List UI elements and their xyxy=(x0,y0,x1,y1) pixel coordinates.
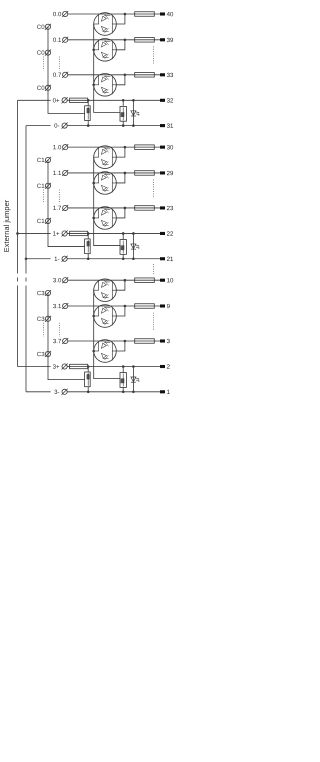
junction 1+ F1 xyxy=(87,232,90,235)
svg-text:0.0: 0.0 xyxy=(53,11,62,18)
junction 3+ LED xyxy=(132,365,135,368)
terminal C1 xyxy=(45,183,51,189)
wire 1+ to fuse xyxy=(67,232,69,234)
wire jumper bus to 1+ xyxy=(18,232,51,234)
pin 23 xyxy=(160,206,165,209)
svg-text:23: 23 xyxy=(167,205,174,212)
terminal 0- xyxy=(62,123,68,129)
junction row 1.0 xyxy=(124,146,127,149)
pin 29 xyxy=(160,171,165,174)
svg-text:2: 2 xyxy=(167,364,171,371)
svg-text:1.7: 1.7 xyxy=(53,205,62,212)
svg-text:External jumper: External jumper xyxy=(2,199,11,252)
pin 40 xyxy=(160,12,165,15)
wire row 1- xyxy=(67,258,160,260)
output driver 1.0 xyxy=(94,146,117,169)
ellipsis dots left a group 1 xyxy=(43,190,45,204)
terminal C0 xyxy=(45,50,51,56)
fuse F2 group 0 xyxy=(120,100,126,125)
external jumper bus minus break dash xyxy=(25,278,27,282)
junction row 0.7 xyxy=(124,74,127,77)
wire jumper bus to 0+ xyxy=(18,99,51,101)
wire common bus C1 xyxy=(48,160,85,247)
svg-text:1: 1 xyxy=(167,389,171,396)
terminal 3.7 xyxy=(62,338,68,344)
junction row 0.1 xyxy=(124,39,127,42)
wire row 0.0 xyxy=(68,13,160,15)
terminal C0 xyxy=(45,85,51,91)
svg-text:3.7: 3.7 xyxy=(53,338,62,345)
output driver 3.7 xyxy=(94,340,117,363)
svg-text:3.0: 3.0 xyxy=(53,277,62,284)
junction row 0.0 xyxy=(124,13,127,16)
ellipsis dots left a group 0 xyxy=(43,57,45,71)
wire jumper bus to 3+ xyxy=(18,366,51,368)
junction driver 0.1 common xyxy=(92,49,95,52)
ellipsis dots right group 1 xyxy=(153,180,155,197)
junction 0- F2 xyxy=(122,124,125,127)
wire driver output jog 3.1 xyxy=(116,306,125,316)
external jumper bus plus lower xyxy=(17,286,19,367)
svg-text:1+: 1+ xyxy=(53,231,60,238)
svg-text:3-: 3- xyxy=(54,389,59,396)
svg-text:C0: C0 xyxy=(37,24,45,31)
wire common bus C3 xyxy=(48,293,85,380)
svg-text:3+: 3+ xyxy=(53,364,60,371)
ellipsis dots right group 0 xyxy=(153,47,155,64)
terminal C3 xyxy=(45,351,51,357)
terminal 1+ xyxy=(62,230,68,236)
svg-text:1-: 1- xyxy=(54,256,59,263)
LED indicator group 0 xyxy=(131,100,140,125)
svg-text:0.7: 0.7 xyxy=(53,72,62,79)
pin 33 xyxy=(160,73,165,76)
junction 1- F1 xyxy=(87,257,90,260)
wire driver common bus group 0 xyxy=(94,24,120,112)
wire driver output jog 0.1 xyxy=(116,40,125,50)
svg-text:C3: C3 xyxy=(37,316,45,323)
fuse F2 group 3 xyxy=(120,367,126,392)
pin 22 xyxy=(160,232,165,235)
wire row 1.7 xyxy=(68,207,160,209)
wire driver output jog 3.7 xyxy=(116,341,125,351)
terminal 1.0 xyxy=(62,144,68,150)
pin 10 xyxy=(160,279,165,282)
terminal 0.7 xyxy=(62,72,68,78)
junction 3- LED xyxy=(132,391,135,394)
terminal 3.1 xyxy=(62,303,68,309)
fuse row 3.0 xyxy=(135,278,155,283)
junction 3+ F2 xyxy=(122,365,125,368)
wire driver output jog 1.1 xyxy=(116,173,125,183)
pin 1 xyxy=(160,390,165,393)
svg-text:9: 9 xyxy=(167,303,171,310)
fuse row 1+ xyxy=(70,231,88,235)
svg-text:29: 29 xyxy=(167,170,174,177)
wire row 1.1 xyxy=(68,172,160,174)
fuse row 3.7 xyxy=(135,339,155,344)
svg-text:21: 21 xyxy=(167,256,174,263)
terminal 0.0 xyxy=(62,11,68,17)
wire jumper bus to 3- xyxy=(26,391,51,393)
svg-text:C1: C1 xyxy=(37,218,45,225)
output driver 0.1 xyxy=(94,39,117,62)
wire driver output jog 1.0 xyxy=(116,147,125,157)
output driver 3.1 xyxy=(94,305,117,328)
junction driver 0.7 common xyxy=(92,84,95,87)
wire driver output jog 0.7 xyxy=(116,75,125,85)
svg-text:0.1: 0.1 xyxy=(53,37,62,44)
LED indicator group 1 xyxy=(131,233,140,258)
fuse F1 group 1 xyxy=(85,233,91,258)
ellipsis dots left b group 3 xyxy=(58,323,60,337)
junction 0- LED xyxy=(132,124,135,127)
junction 1+ LED xyxy=(132,232,135,235)
wire 0+ to fuse xyxy=(67,99,69,101)
terminal 0+ xyxy=(62,97,68,103)
terminal 0.1 xyxy=(62,37,68,43)
fuse row 0.7 xyxy=(135,73,155,78)
terminal C3 xyxy=(45,316,51,322)
junction 1- F2 xyxy=(122,257,125,260)
terminal C1 xyxy=(45,218,51,224)
wire row 1.0 xyxy=(68,146,160,148)
svg-text:C0: C0 xyxy=(37,85,45,92)
wire row 0- xyxy=(67,125,160,127)
junction 1- LED xyxy=(132,257,135,260)
fuse row 0.0 xyxy=(135,12,155,17)
svg-text:31: 31 xyxy=(167,123,174,130)
fuse F1 group 0 xyxy=(85,100,91,125)
fuse row 1.0 xyxy=(135,145,155,150)
svg-text:C1: C1 xyxy=(37,157,45,164)
ellipsis dots left a group 3 xyxy=(43,323,45,337)
output driver 0.0 xyxy=(94,13,117,36)
svg-text:C1: C1 xyxy=(37,183,45,190)
output driver 3.0 xyxy=(94,279,117,302)
fuse row 1.7 xyxy=(135,206,155,211)
fuse F1 group 3 xyxy=(85,367,91,392)
external jumper bus minus lower xyxy=(25,286,27,392)
wire driver output jog 3.0 xyxy=(116,280,125,290)
ellipsis dots left b group 1 xyxy=(58,190,60,204)
wire 3+ to fuse xyxy=(67,366,69,368)
junction driver 1.7 common xyxy=(92,217,95,220)
terminal C0 xyxy=(45,24,51,30)
terminal 3+ xyxy=(62,363,68,369)
pin 31 xyxy=(160,124,165,127)
wire jumper bus to 1- xyxy=(26,258,51,260)
wire row 3+ xyxy=(88,366,161,368)
wire driver output jog 0.0 xyxy=(116,14,125,24)
wire row 3- xyxy=(67,391,160,393)
junction 3- F1 xyxy=(87,391,90,394)
output driver 1.7 xyxy=(94,207,117,230)
svg-text:40: 40 xyxy=(167,11,174,18)
svg-text:22: 22 xyxy=(167,231,174,238)
junction 0+ F2 xyxy=(122,99,125,102)
wire row 1+ xyxy=(88,232,161,234)
junction bus minus 1- xyxy=(25,257,28,260)
junction 0+ F1 xyxy=(87,99,90,102)
junction 1+ F2 xyxy=(122,232,125,235)
svg-text:0+: 0+ xyxy=(53,97,60,104)
junction 3+ F1 xyxy=(87,365,90,368)
svg-text:0-: 0- xyxy=(54,123,59,130)
pin 30 xyxy=(160,146,165,149)
wire row 0+ xyxy=(88,99,161,101)
junction 3- F2 xyxy=(122,391,125,394)
svg-text:3: 3 xyxy=(167,338,171,345)
terminal 1.7 xyxy=(62,205,68,211)
terminal 3.0 xyxy=(62,277,68,283)
pin 32 xyxy=(160,99,165,102)
wire jumper bus to 0- xyxy=(26,125,51,127)
pin 2 xyxy=(160,365,165,368)
external jumper bus plus upper xyxy=(17,100,19,273)
ellipsis dots right group 3 xyxy=(153,313,155,330)
junction row 1.1 xyxy=(124,172,127,175)
svg-text:C3: C3 xyxy=(37,351,45,358)
terminal 3- xyxy=(62,389,68,395)
svg-text:1.0: 1.0 xyxy=(53,144,62,151)
wire common bus C0 xyxy=(48,27,85,114)
svg-text:C0: C0 xyxy=(37,50,45,57)
fuse row 1.1 xyxy=(135,171,155,176)
fuse row 3.1 xyxy=(135,304,155,309)
svg-text:32: 32 xyxy=(167,98,174,105)
wire row 3.1 xyxy=(68,305,160,307)
wire row 0.1 xyxy=(68,39,160,41)
fuse row 0.1 xyxy=(135,38,155,43)
junction 0+ LED xyxy=(132,99,135,102)
svg-text:1.1: 1.1 xyxy=(53,170,62,177)
junction driver 1.1 common xyxy=(92,182,95,185)
wire driver output jog 1.7 xyxy=(116,208,125,218)
ellipsis dots right between groups xyxy=(153,264,155,274)
external jumper bus plus break dash xyxy=(17,278,19,282)
svg-text:30: 30 xyxy=(167,144,174,151)
wire row 3.7 xyxy=(68,340,160,342)
junction row 1.7 xyxy=(124,207,127,210)
terminal 1.1 xyxy=(62,170,68,176)
junction driver 3.7 common xyxy=(92,350,95,353)
fuse row 3+ xyxy=(70,364,88,368)
svg-text:39: 39 xyxy=(167,37,174,44)
pin 9 xyxy=(160,304,165,307)
junction bus plus 1+ xyxy=(16,232,19,235)
wire row 0.7 xyxy=(68,74,160,76)
wire row 3.0 xyxy=(68,279,160,281)
terminal C1 xyxy=(45,157,51,163)
wire driver common bus group 3 xyxy=(94,290,120,378)
LED indicator group 3 xyxy=(131,367,140,392)
junction row 3.7 xyxy=(124,340,127,343)
output driver 1.1 xyxy=(94,172,117,195)
svg-text:33: 33 xyxy=(167,72,174,79)
output driver 0.7 xyxy=(94,74,117,97)
terminal 1- xyxy=(62,256,68,262)
external jumper bus minus upper xyxy=(25,126,27,274)
svg-text:C3: C3 xyxy=(37,290,45,297)
junction row 3.0 xyxy=(124,279,127,282)
fuse row 0+ xyxy=(70,98,88,102)
junction driver 3.1 common xyxy=(92,315,95,318)
junction row 3.1 xyxy=(124,305,127,308)
pin 3 xyxy=(160,339,165,342)
pin 21 xyxy=(160,257,165,260)
ellipsis dots left b group 0 xyxy=(58,57,60,71)
svg-text:10: 10 xyxy=(167,277,174,284)
terminal C3 xyxy=(45,290,51,296)
junction 0- F1 xyxy=(87,124,90,127)
wire driver common bus group 1 xyxy=(94,157,120,245)
pin 39 xyxy=(160,38,165,41)
svg-text:3.1: 3.1 xyxy=(53,303,62,310)
fuse F2 group 1 xyxy=(120,233,126,258)
